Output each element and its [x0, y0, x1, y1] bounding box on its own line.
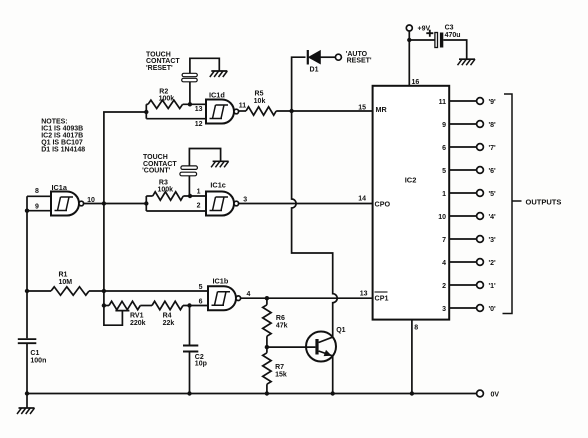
- svg-text:IC1 IS 4093B: IC1 IS 4093B: [41, 126, 83, 133]
- svg-text:IC1d: IC1d: [209, 91, 225, 100]
- svg-text:+9V: +9V: [418, 25, 431, 32]
- node R5 / D1 / MR: [289, 109, 293, 113]
- terminal AUTO RESET: [335, 54, 341, 60]
- wire R5 to MR junction: [276, 110, 372, 112]
- node mid vertical / RV1 line: [102, 303, 106, 307]
- svg-text:'0': '0': [489, 306, 497, 313]
- wire +9V node to C3: [409, 39, 435, 41]
- svg-text:11: 11: [439, 99, 447, 106]
- wire node to C2: [189, 306, 191, 345]
- resistor R4: [152, 301, 183, 309]
- wire IC1a output to IC1c input node: [84, 203, 147, 205]
- gate IC1c (Schmitt NAND): [206, 192, 234, 216]
- wire R1 to IC1b pin 5: [89, 290, 208, 292]
- svg-text:'6': '6': [489, 168, 497, 175]
- svg-text:9: 9: [35, 203, 39, 210]
- svg-text:11: 11: [239, 103, 247, 110]
- wire D1 branch vertical: [292, 57, 306, 111]
- wire C2 to 0V rail: [189, 352, 191, 393]
- node C2 / 0V rail: [187, 391, 191, 395]
- wire Q1 collector with hop over CP1 line and jog to D1 junction: [292, 111, 338, 337]
- svg-text:'COUNT': 'COUNT': [142, 168, 171, 175]
- IC U2 body (IC2 4017B): [373, 86, 450, 320]
- svg-text:D1 IS 1N4148: D1 IS 1N4148: [41, 147, 85, 154]
- wire R3 to IC1c pin 1: [183, 195, 206, 197]
- svg-text:OUTPUTS: OUTPUTS: [526, 197, 562, 206]
- outputs bracket: [503, 94, 522, 314]
- svg-text:'1': '1': [489, 283, 497, 290]
- wire IC1d input node vertical: [145, 104, 147, 118]
- wire touch RESET upper lead to ground: [190, 58, 219, 73]
- svg-text:5: 5: [442, 168, 446, 175]
- svg-text:4: 4: [442, 260, 446, 267]
- node IC1b output / R6: [265, 296, 269, 300]
- svg-text:100k: 100k: [158, 186, 174, 193]
- IC2 pin 9 output '8': [449, 123, 476, 125]
- wire D1 to AUTO RESET terminal: [321, 56, 336, 58]
- svg-text:IC2 IS 4017B: IC2 IS 4017B: [41, 133, 83, 140]
- svg-text:6: 6: [442, 145, 446, 152]
- svg-text:'7': '7': [489, 145, 497, 152]
- RV1 wiper return: [104, 306, 129, 326]
- IC2 pin 5 output '6': [449, 169, 476, 171]
- svg-text:15: 15: [358, 104, 366, 111]
- svg-text:IC1b: IC1b: [213, 276, 229, 285]
- wire IC1a pin 8 stub: [27, 195, 51, 197]
- wire touch RESET lower lead: [189, 82, 191, 104]
- svg-text:10: 10: [438, 214, 446, 221]
- node IC1d inputs: [144, 110, 148, 114]
- terminal 0V: [477, 390, 484, 397]
- gate IC1b (Schmitt NAND): [208, 286, 236, 310]
- IC2 pin 2 output '1': [449, 284, 476, 286]
- svg-text:CP1: CP1: [375, 293, 389, 302]
- svg-text:16: 16: [412, 79, 420, 86]
- wire IC2 pin 8 to 0V rail: [411, 320, 413, 394]
- capacitor C1: [18, 339, 37, 343]
- svg-text:470u: 470u: [445, 32, 461, 39]
- svg-text:7: 7: [442, 237, 446, 244]
- svg-text:100n: 100n: [30, 357, 46, 364]
- svg-text:C1: C1: [30, 350, 39, 357]
- svg-text:13: 13: [195, 106, 203, 113]
- resistor R5: [246, 107, 276, 115]
- node +9V / C3: [407, 38, 411, 42]
- svg-text:10p: 10p: [195, 361, 207, 368]
- svg-text:2: 2: [442, 283, 446, 290]
- svg-text:3: 3: [442, 306, 446, 313]
- touch contact COUNT plates: [181, 166, 198, 170]
- svg-text:'5': '5': [489, 191, 497, 198]
- wire touch COUNT lower lead: [188, 176, 190, 196]
- svg-text:4: 4: [247, 291, 251, 298]
- svg-text:RESET': RESET': [347, 58, 372, 65]
- svg-text:6: 6: [199, 299, 203, 306]
- svg-text:IC2: IC2: [405, 176, 417, 185]
- node R3 / touch contact COUNT: [188, 194, 192, 198]
- wire IC1d pin 12: [146, 118, 206, 120]
- node IC1c inputs: [144, 201, 148, 205]
- svg-text:IC1a: IC1a: [52, 183, 68, 192]
- svg-text:8: 8: [414, 325, 418, 332]
- IC2 pin 3 output '0': [449, 307, 476, 309]
- svg-text:'4': '4': [489, 214, 497, 221]
- svg-text:13: 13: [360, 291, 368, 298]
- svg-text:Q1 IS BC107: Q1 IS BC107: [41, 140, 83, 147]
- capacitor C2: [183, 346, 198, 352]
- svg-text:47k: 47k: [276, 323, 288, 330]
- wire R4 to IC1b pin 6: [183, 305, 208, 307]
- svg-text:8: 8: [35, 188, 39, 195]
- wire Q1 emitter to 0V rail: [332, 356, 334, 394]
- svg-text:C3: C3: [445, 24, 454, 31]
- transistor Q1: [306, 332, 336, 362]
- wire IC2 pin 16 to +9V: [408, 40, 410, 86]
- node Q1 emitter / 0V rail: [331, 391, 335, 395]
- wire IC1a pin 9 stub: [27, 210, 51, 212]
- wire Q1 base: [267, 346, 316, 348]
- svg-text:220k: 220k: [130, 320, 146, 327]
- svg-text:12: 12: [195, 121, 203, 128]
- resistor R3: [146, 195, 152, 197]
- touch contact RESET plates: [182, 73, 197, 76]
- svg-text:NOTES:: NOTES:: [41, 119, 67, 126]
- svg-text:2: 2: [197, 202, 201, 209]
- svg-text:'3': '3': [489, 237, 497, 244]
- svg-text:'8': '8': [489, 122, 497, 129]
- svg-text:R2: R2: [159, 88, 168, 95]
- potentiometer RV1: [104, 305, 109, 307]
- wire touch COUNT upper lead to ground: [189, 149, 220, 166]
- wire IC1c output to IC2 CPO: [239, 203, 373, 205]
- wire left rail to R1: [27, 290, 51, 292]
- node R6 / R7 / Q1 base: [265, 345, 269, 349]
- svg-text:9: 9: [442, 122, 446, 129]
- node left rail / R1: [25, 289, 29, 293]
- wire left rail vertical: [26, 196, 28, 408]
- node left rail / 0V rail: [25, 391, 29, 395]
- svg-text:R4: R4: [163, 313, 172, 320]
- svg-text:10k: 10k: [254, 98, 266, 105]
- IC2 pin 1 output '5': [449, 192, 476, 194]
- wire IC1d output to R5: [239, 110, 246, 112]
- wire middle vertical x104 with top corner to IC1d inputs: [104, 112, 146, 306]
- svg-text:'2': '2': [489, 260, 497, 267]
- resistor R7: [266, 347, 268, 353]
- ground left bottom: [19, 407, 35, 409]
- svg-text:'9': '9': [489, 99, 497, 106]
- svg-text:Q1: Q1: [336, 327, 345, 334]
- resistor R1: [51, 287, 89, 295]
- svg-text:22k: 22k: [163, 320, 175, 327]
- svg-text:1: 1: [442, 191, 446, 198]
- svg-text:MR: MR: [376, 105, 388, 114]
- diode D1: [307, 50, 309, 65]
- svg-text:15k: 15k: [275, 371, 287, 378]
- svg-text:R1: R1: [59, 271, 68, 278]
- node R4 / C2: [187, 303, 191, 307]
- wire 0V rail: [27, 393, 477, 395]
- svg-text:'RESET': 'RESET': [146, 65, 173, 72]
- svg-text:R5: R5: [255, 91, 264, 98]
- node mid vertical / R1 line: [102, 289, 106, 293]
- svg-text:0V: 0V: [491, 392, 500, 399]
- svg-text:R7: R7: [275, 364, 284, 371]
- IC2 pin 10 output '4': [449, 215, 476, 217]
- svg-text:5: 5: [199, 284, 203, 291]
- wire R2 to IC1d pin 13: [183, 103, 206, 105]
- svg-text:D1: D1: [310, 66, 319, 73]
- wire C3 to ground: [443, 40, 466, 59]
- node R7 / 0V rail: [265, 391, 269, 395]
- gate IC1d (Schmitt NAND): [206, 100, 234, 124]
- svg-text:IC1c: IC1c: [210, 180, 225, 189]
- IC2 pin 7 output '3': [449, 238, 476, 240]
- IC2 pin 6 output '7': [449, 146, 476, 148]
- svg-text:100k: 100k: [159, 95, 175, 102]
- wire IC1c input node vertical: [145, 196, 147, 211]
- wire IC1c pin 2: [146, 210, 206, 212]
- wire IC1b output to IC2 CP1: [241, 297, 373, 299]
- node IC2 pin 8 / 0V rail: [410, 391, 414, 395]
- terminal +9V: [406, 25, 412, 31]
- capacitor C3 (polarized): [435, 33, 438, 48]
- svg-text:14: 14: [358, 196, 366, 203]
- IC2 pin 11 output '9': [449, 100, 476, 102]
- wire RV1 to R4: [140, 305, 152, 307]
- resistor R2: [146, 103, 148, 105]
- ground touch RESET: [211, 70, 227, 72]
- svg-text:10M: 10M: [59, 279, 73, 286]
- svg-text:RV1: RV1: [130, 313, 144, 320]
- svg-text:R6: R6: [276, 315, 285, 322]
- node left rail / IC1a inputs: [25, 209, 29, 213]
- op... gate IC1a (Schmitt NAND): [51, 192, 79, 216]
- IC2 pin 4 output '2': [449, 261, 476, 263]
- svg-text:1: 1: [197, 188, 201, 195]
- node R2 / touch contact RESET: [188, 102, 192, 106]
- ground touch COUNT: [213, 160, 229, 162]
- resistor R6: [266, 298, 268, 305]
- ground C3: [459, 58, 475, 60]
- node pin10 wire / mid vertical: [102, 201, 106, 205]
- svg-text:CPO: CPO: [375, 199, 391, 208]
